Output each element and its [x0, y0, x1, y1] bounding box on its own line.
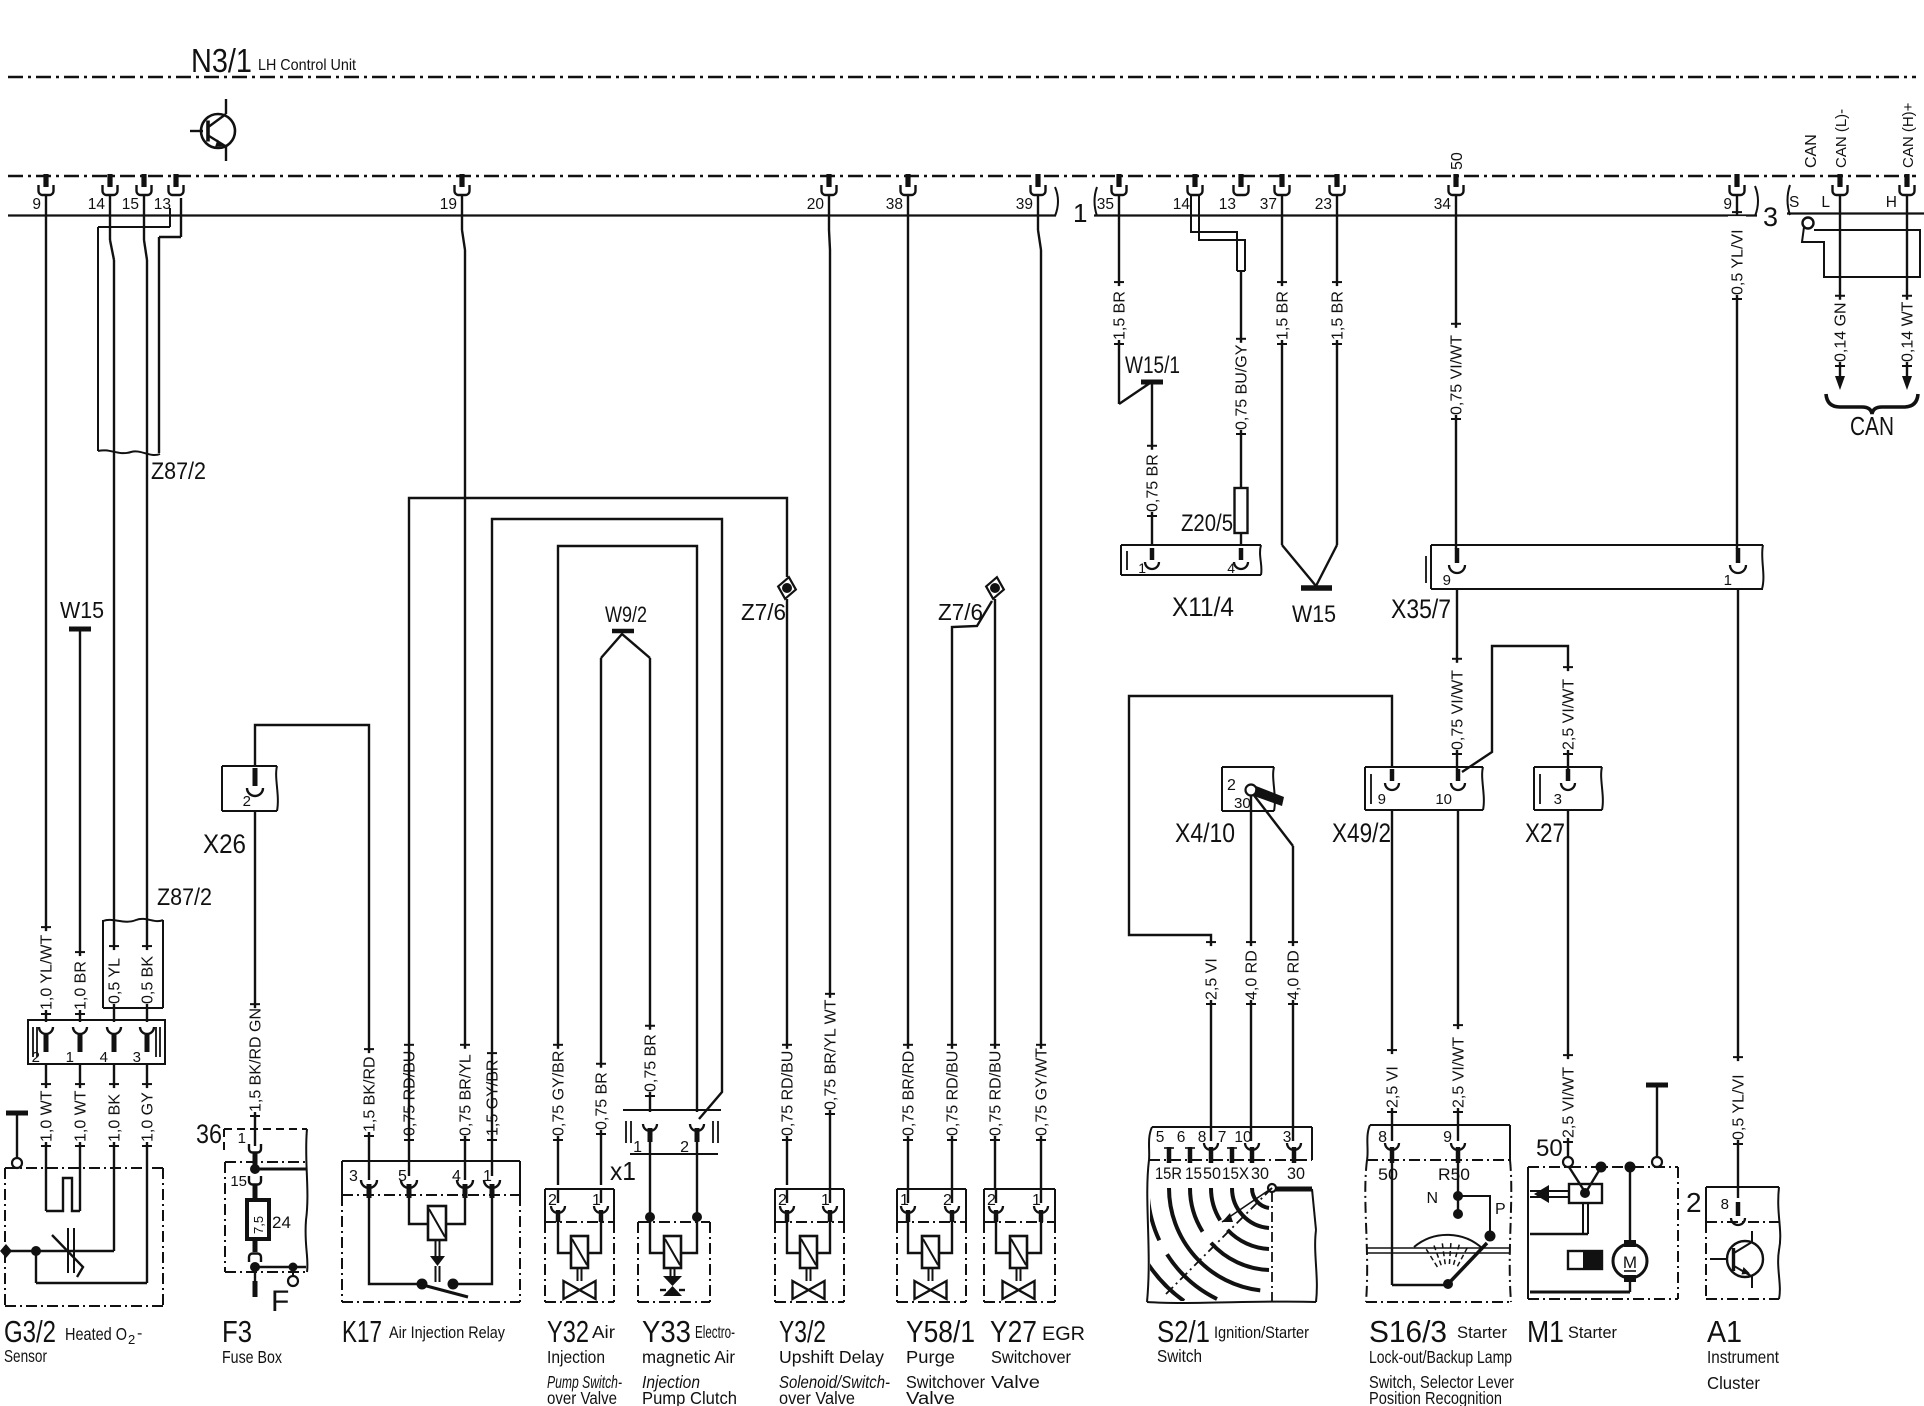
svg-text:1,5 BR: 1,5 BR — [1112, 291, 1129, 340]
starter lock-out switch S16/3 connector strip — [1367, 1125, 1370, 1160]
solder point Z7/6 first — [776, 576, 798, 601]
svg-text:0,14 GN: 0,14 GN — [1833, 302, 1850, 362]
svg-text:50: 50 — [1536, 1135, 1563, 1162]
CAN L wire 0,14 GN — [1839, 196, 1841, 378]
svg-text:CAN: CAN — [1803, 134, 1820, 168]
svg-text:4,0 RD: 4,0 RD — [1244, 950, 1261, 1000]
svg-text:Z20/5: Z20/5 — [1181, 510, 1233, 537]
S16/3 housing — [1365, 1160, 1367, 1302]
svg-text:W15: W15 — [60, 597, 104, 623]
svg-text:H: H — [1886, 194, 1897, 211]
svg-text:Heated O: Heated O — [65, 1324, 127, 1344]
N3/1 pin 20 — [826, 174, 831, 187]
ground W15 — [1301, 585, 1332, 591]
wire Z7/6 to Y27 pin 2 — [994, 599, 996, 1189]
svg-text:0,75 BR: 0,75 BR — [594, 1072, 611, 1130]
svg-text:X49/2: X49/2 — [1332, 818, 1391, 848]
connector x1 pin 3 — [140, 1027, 154, 1034]
wire X49/2 pin 10 to S16/3 terminal R50: 2,5 VI/WT — [1457, 810, 1459, 1141]
svg-text:9: 9 — [32, 196, 41, 213]
X49/2 pin 9 — [1390, 769, 1395, 781]
svg-text:A1: A1 — [1707, 1314, 1742, 1349]
svg-text:10: 10 — [1234, 1129, 1252, 1146]
wire pin 9 to O2 sensor connector pin 2 — [45, 194, 47, 1022]
shielded cable Z87/2 upper section — [98, 226, 170, 228]
svg-text:EGR: EGR — [1042, 1324, 1085, 1345]
wire pin 34: 0,75 VI/WT down to X35/7 — [1455, 194, 1457, 549]
svg-text:S16/3: S16/3 — [1369, 1314, 1447, 1349]
svg-text:K17: K17 — [342, 1314, 382, 1349]
svg-text:13: 13 — [1219, 196, 1236, 213]
N3/1 pin 37 — [1279, 174, 1284, 187]
Y32 valve body — [545, 1221, 614, 1223]
CAN shield loop at pin S — [1803, 218, 1814, 229]
N3/1 pin 23 — [1334, 174, 1339, 187]
heated O2 sensor G3/2 ground stud — [6, 1111, 28, 1116]
svg-text:10: 10 — [1435, 791, 1452, 808]
connector x1 of O2 sensor — [28, 1020, 165, 1064]
svg-text:X35/7: X35/7 — [1391, 594, 1451, 624]
M1 housing — [1528, 1166, 1678, 1168]
svg-text:LH Control Unit: LH Control Unit — [258, 57, 356, 74]
wire 1,5 GY/BR K17 pin 1 — [483, 1057, 501, 1136]
svg-text:2,5 VI: 2,5 VI — [1385, 1066, 1402, 1108]
svg-text:S: S — [1789, 194, 1799, 211]
wire pin 20 to Y3/2 pin 1 — [828, 194, 830, 230]
svg-text:over Valve: over Valve — [779, 1388, 855, 1406]
svg-text:x1: x1 — [610, 1156, 636, 1186]
svg-text:14: 14 — [88, 196, 106, 213]
svg-text:15: 15 — [230, 1173, 247, 1190]
X35/7 pin 9 — [1455, 548, 1460, 563]
svg-text:23: 23 — [1315, 196, 1332, 213]
CAN brace — [1826, 394, 1918, 414]
wire W9/2 to connector x1 pin 1: 0,75 BR — [649, 658, 651, 1112]
wire connector to sensor: 1,0 WT — [79, 1064, 81, 1211]
svg-text:CAN (L)-: CAN (L)- — [1833, 109, 1850, 168]
svg-text:W15: W15 — [1292, 601, 1336, 628]
X35/7 pin 1 — [1736, 548, 1741, 563]
svg-text:Sensor: Sensor — [4, 1346, 47, 1366]
wires x1 pins down to Y33 with junctions — [649, 1142, 651, 1222]
svg-text:0,75 BU/GY: 0,75 BU/GY — [1234, 344, 1251, 430]
svg-text:Purge: Purge — [906, 1347, 955, 1367]
wire connector to sensor: 1,0 BK — [113, 1064, 115, 1251]
svg-text:6: 6 — [1177, 1129, 1186, 1146]
svg-text:3: 3 — [1763, 202, 1778, 232]
control unit N3/1 dashed border top — [8, 76, 1916, 79]
svg-text:Position Recognition: Position Recognition — [1369, 1388, 1502, 1406]
svg-text:0,75 RD/BU: 0,75 RD/BU — [780, 1051, 797, 1136]
wire loop K17 pin 5 to Y3/2 pin 2 — [409, 498, 787, 1176]
air injection relay K17 connector box — [342, 1160, 520, 1162]
svg-text:1: 1 — [1724, 572, 1732, 589]
wire X4/10 4,0 RD to S2/1 — [1250, 795, 1252, 1141]
svg-text:13: 13 — [154, 196, 171, 213]
svg-text:2: 2 — [680, 1139, 689, 1156]
A1 transistor symbol — [1727, 1241, 1763, 1277]
solder point Z7/6 second — [984, 576, 1006, 601]
svg-text:1,5 BK/RD GN: 1,5 BK/RD GN — [248, 1008, 265, 1112]
connector X26 — [222, 765, 277, 767]
svg-text:15X: 15X — [1222, 1165, 1249, 1183]
svg-text:Y32: Y32 — [547, 1314, 589, 1349]
svg-text:34: 34 — [1434, 196, 1452, 213]
svg-text:Z87/2: Z87/2 — [157, 884, 212, 911]
svg-text:Lock-out/Backup Lamp: Lock-out/Backup Lamp — [1369, 1347, 1512, 1367]
svg-text:R50: R50 — [1438, 1166, 1470, 1184]
connector X49/2 — [1365, 766, 1483, 768]
K17 contact wiring pins 3 and 1 — [369, 1198, 417, 1284]
svg-text:Switchover: Switchover — [991, 1347, 1071, 1367]
svg-text:Starter: Starter — [1568, 1323, 1617, 1342]
svg-text:36: 36 — [196, 1119, 222, 1149]
wire 0,5 YL/VI bus pin 9 to X35/7 pin 1 — [1736, 194, 1738, 549]
svg-text:0,75 BR/YL WT: 0,75 BR/YL WT — [823, 999, 840, 1110]
wire X35/7 pin 1 to instrument cluster A1: 0,5 YL/VI — [1737, 589, 1739, 1198]
svg-text:0,5 BK: 0,5 BK — [140, 956, 157, 1004]
fuse element Z20/5 — [1235, 488, 1248, 533]
connector x1 pin 2 — [39, 1027, 53, 1034]
air injection pump switchover valve Y32 connector — [545, 1188, 614, 1190]
upshift delay solenoid valve Y3/2 connector — [775, 1188, 844, 1190]
M1 linkage — [1582, 1203, 1584, 1234]
svg-text:W9/2: W9/2 — [605, 602, 647, 627]
svg-text:50: 50 — [1449, 152, 1466, 170]
svg-text:1,0 GY: 1,0 GY — [140, 1092, 157, 1142]
svg-text:M1: M1 — [1527, 1314, 1564, 1349]
wire connector to sensor: 1,0 GY — [146, 1064, 148, 1283]
svg-text:-: - — [137, 1325, 142, 1342]
Y33 clutch symbol — [670, 1268, 672, 1276]
svg-text:N: N — [1426, 1190, 1438, 1207]
wire pin 13 jog to cable shield — [180, 198, 182, 237]
svg-text:Cluster: Cluster — [1707, 1373, 1760, 1393]
K17 relay coil — [428, 1206, 446, 1240]
svg-text:15R: 15R — [1155, 1165, 1182, 1183]
svg-text:2,5 VI: 2,5 VI — [1204, 958, 1221, 1000]
svg-text:1: 1 — [238, 1130, 246, 1147]
S16/3 selector fan — [1443, 1279, 1453, 1289]
svg-text:50: 50 — [1203, 1165, 1221, 1183]
svg-text:Z7/6: Z7/6 — [741, 599, 786, 625]
wire 0,75 RD/BU K17 pin 5 — [400, 1049, 418, 1136]
svg-text:Z7/6: Z7/6 — [938, 599, 983, 625]
connector X11/4 — [1121, 544, 1261, 546]
svg-text:2,5 VI/WT: 2,5 VI/WT — [1561, 679, 1578, 750]
svg-text:2: 2 — [1227, 777, 1236, 794]
svg-text:5: 5 — [1156, 1129, 1165, 1146]
svg-text:4,0 RD: 4,0 RD — [1286, 950, 1303, 1000]
S2/1 housing — [1147, 1160, 1149, 1302]
N3/1 pin 9 — [1734, 174, 1739, 187]
svg-text:1,5 BR: 1,5 BR — [1330, 291, 1347, 340]
N3/1 pin 14 — [107, 174, 112, 187]
svg-text:4: 4 — [1227, 560, 1235, 576]
wire W15/1 to X11/4 pin 1: 0,75 BR — [1151, 384, 1153, 546]
svg-text:7,5: 7,5 — [251, 1216, 266, 1234]
svg-text:1: 1 — [1073, 198, 1087, 228]
svg-text:1,5 BR: 1,5 BR — [1275, 291, 1292, 340]
heated O2 sensor G3/2 housing — [5, 1167, 163, 1169]
G3/2 heater element — [46, 1178, 80, 1211]
M1 engagement arrow — [1530, 1190, 1569, 1192]
svg-text:Fuse Box: Fuse Box — [222, 1347, 282, 1367]
svg-text:1: 1 — [66, 1049, 74, 1066]
EGR switchover valve Y27 connector — [984, 1188, 1055, 1190]
control unit N3/1 dashed border bottom — [8, 175, 1916, 178]
S16/3 internal wiring — [1391, 1163, 1393, 1285]
instrument cluster A1 housing — [1706, 1186, 1779, 1188]
shielded cable Z87/2 lower section — [103, 919, 163, 922]
X11/4 pin 4 — [1239, 548, 1244, 560]
CAN pin H — [1904, 174, 1909, 187]
wire X49/2 pin 10 to X27 pin 3 — [1462, 646, 1568, 772]
svg-text:0,75 BR/YL: 0,75 BR/YL — [458, 1054, 475, 1136]
svg-text:2: 2 — [243, 793, 251, 810]
X49/2 pin 10 — [1456, 769, 1461, 781]
wire W15 to sensor connector pin 1 — [79, 631, 81, 1022]
wire pin 39 to Y27 pin 1 — [1037, 194, 1039, 230]
svg-text:3: 3 — [133, 1049, 141, 1066]
svg-text:0,5 YL/VI: 0,5 YL/VI — [1730, 229, 1747, 295]
wire loop K17 pin 1 to connector x1 pin 2 — [492, 519, 722, 1176]
svg-text:4: 4 — [100, 1049, 108, 1066]
wire Z7/6 branch to Y58/1 pin 2 — [952, 601, 992, 1189]
svg-text:1: 1 — [1138, 560, 1146, 576]
wire pin 14 down through shield to connector pin 4 — [109, 194, 111, 240]
N3/1 pin 38 — [905, 174, 910, 187]
wire X27 pin 3 to starter M1 terminal 50: 2,5 VI/WT — [1567, 810, 1569, 1157]
svg-text:S2/1: S2/1 — [1157, 1314, 1210, 1349]
CAN pin L — [1837, 174, 1842, 187]
svg-text:magnetic Air: magnetic Air — [642, 1347, 735, 1367]
svg-text:0,75 GY/BR: 0,75 GY/BR — [551, 1051, 568, 1136]
S2/1 pins 15R 15 15X plugs — [1164, 1147, 1174, 1149]
svg-text:F3: F3 — [222, 1314, 252, 1349]
wire W9/2 to Y32 pin 1: 0,75 BR — [600, 658, 602, 1185]
svg-text:G3/2: G3/2 — [4, 1314, 56, 1349]
svg-text:3: 3 — [1554, 791, 1562, 808]
wire 0,75 VI/WT X35/7 pin 9 to X49/2 pin 10 — [1456, 589, 1458, 769]
svg-text:8: 8 — [1721, 1196, 1729, 1213]
wire 0,75 BR/YL from pin 19 — [461, 194, 463, 230]
K17 coil wiring — [409, 1198, 428, 1224]
svg-text:14: 14 — [1173, 196, 1191, 213]
svg-text:9: 9 — [1723, 196, 1732, 213]
svg-text:9: 9 — [1443, 572, 1451, 589]
svg-text:Y58/1: Y58/1 — [906, 1314, 975, 1349]
connector x1 pin 1 — [643, 1124, 657, 1131]
svg-text:Y27: Y27 — [990, 1314, 1037, 1349]
svg-text:Y33: Y33 — [642, 1314, 691, 1349]
svg-text:Upshift Delay: Upshift Delay — [779, 1347, 884, 1367]
svg-text:Air Injection Relay: Air Injection Relay — [389, 1323, 505, 1342]
svg-text:38: 38 — [886, 196, 903, 213]
svg-text:Injection: Injection — [547, 1347, 605, 1367]
N3/1 pin 34 — [1453, 174, 1458, 187]
svg-text:39: 39 — [1016, 196, 1033, 213]
svg-text:37: 37 — [1260, 196, 1277, 213]
wire pin 15 down through shield to connector pin 3 — [143, 194, 145, 240]
Y58/1 valve body — [897, 1221, 966, 1223]
svg-text:1: 1 — [633, 1139, 642, 1156]
N3/1 pin 19 — [459, 174, 464, 187]
svg-text:X26: X26 — [203, 829, 246, 859]
svg-text:0,75 RD/BU: 0,75 RD/BU — [945, 1051, 962, 1136]
connector x1 pin 4 — [107, 1027, 121, 1034]
wire 0,75 BU/GY to Z20/5 — [1240, 271, 1242, 488]
wire X26 up and over to relay K17 pin 3 — [255, 725, 369, 1180]
bus bar segment 2 (connector 3) — [1094, 214, 1757, 216]
X11/4 pin 1 — [1150, 548, 1155, 560]
connector x1 pin 2 — [690, 1124, 704, 1131]
svg-text:0,14 WT: 0,14 WT — [1900, 301, 1917, 362]
svg-text:Switch: Switch — [1157, 1346, 1202, 1366]
S2/1 rotary switch symbol — [1268, 1184, 1276, 1192]
svg-text:Valve: Valve — [906, 1388, 955, 1406]
G3/2 sensor cell wiring — [36, 1250, 114, 1252]
svg-text:30: 30 — [1251, 1165, 1269, 1183]
N3/1 pin 39 — [1035, 174, 1040, 187]
wire pin 38 to Y58/1 pin 1 — [907, 194, 909, 1189]
N3/1 pin 35 — [1116, 174, 1121, 187]
Y3/2 valve body — [775, 1221, 844, 1223]
svg-text:Ignition/Starter: Ignition/Starter — [1214, 1323, 1309, 1342]
svg-text:3: 3 — [349, 1168, 358, 1185]
K17 housing dash-dot — [342, 1194, 520, 1196]
svg-text:30: 30 — [1287, 1165, 1305, 1183]
electromagnetic air injection pump clutch Y33 — [638, 1221, 710, 1223]
wire pin 35: 1,5 BR to W15/1 — [1118, 194, 1120, 404]
ignition/starter switch S2/1 connector strip — [1149, 1127, 1152, 1160]
svg-text:2,5 VI/WT: 2,5 VI/WT — [1451, 1037, 1468, 1108]
M1 solenoid — [1596, 1162, 1607, 1173]
svg-text:1,0 YL/WT: 1,0 YL/WT — [39, 934, 56, 1010]
M1 ground — [1646, 1083, 1668, 1088]
svg-text:0,75 BR: 0,75 BR — [643, 1034, 660, 1092]
svg-text:0,5 YL/VI: 0,5 YL/VI — [1731, 1074, 1748, 1140]
fuse element 7,5A — [247, 1200, 269, 1239]
svg-text:F: F — [271, 1285, 289, 1318]
svg-text:Starter: Starter — [1457, 1323, 1507, 1342]
N3/1 pin 13 — [173, 174, 178, 187]
connector X27 — [1534, 766, 1602, 768]
svg-text:Electro-: Electro- — [695, 1322, 735, 1342]
svg-text:Pump Clutch: Pump Clutch — [642, 1388, 737, 1406]
wire X4/10 diagonal 4,0 RD to S2/1 — [1253, 794, 1293, 846]
svg-text:1,0 WT: 1,0 WT — [73, 1090, 90, 1142]
CAN H wire 0,14 WT — [1906, 196, 1908, 378]
S16/3 twin rails — [1367, 1247, 1510, 1249]
svg-text:2: 2 — [32, 1049, 40, 1066]
connector x1 above Y33 — [623, 1109, 721, 1111]
svg-text:0,75 VI/WT: 0,75 VI/WT — [1449, 335, 1466, 415]
svg-text:0,75 BR/RD: 0,75 BR/RD — [901, 1051, 918, 1136]
purge switchover valve Y58/1 connector — [897, 1188, 966, 1190]
N3/1 pin 9 — [43, 174, 48, 187]
svg-text:2: 2 — [1686, 1187, 1702, 1218]
svg-text:P: P — [1495, 1201, 1506, 1218]
svg-text:W15/1: W15/1 — [1125, 352, 1180, 379]
svg-text:X4/10: X4/10 — [1175, 818, 1235, 848]
ribbon wire pins 14/13 — [1191, 196, 1237, 271]
svg-text:0,75 VI/WT: 0,75 VI/WT — [1450, 670, 1467, 750]
svg-text:X11/4: X11/4 — [1172, 592, 1234, 622]
svg-text:L: L — [1821, 194, 1830, 211]
svg-text:2: 2 — [128, 1332, 135, 1347]
bus bar segment 1 (connector 1) — [8, 214, 1056, 216]
M1 motor — [1629, 1167, 1631, 1240]
svg-text:Z87/2: Z87/2 — [151, 458, 206, 485]
svg-text:15: 15 — [1185, 1165, 1202, 1183]
svg-text:1,5 BK/RD: 1,5 BK/RD — [362, 1056, 379, 1132]
connector X4/10 — [1222, 766, 1274, 768]
svg-text:1,0 BK: 1,0 BK — [107, 1094, 124, 1142]
N3/1 pin 14 — [1192, 174, 1197, 187]
svg-text:N3/1: N3/1 — [191, 42, 252, 79]
svg-text:2: 2 — [548, 1192, 557, 1209]
wire connector to sensor: 1,0 WT — [45, 1064, 47, 1211]
svg-text:35: 35 — [1097, 196, 1114, 213]
svg-text:50: 50 — [1378, 1166, 1398, 1184]
svg-text:X27: X27 — [1525, 818, 1565, 848]
svg-text:Valve: Valve — [991, 1372, 1040, 1392]
svg-text:0,75 RD/BU: 0,75 RD/BU — [988, 1051, 1005, 1136]
S2/1 pins 50 30 30 sockets — [1204, 1143, 1218, 1150]
svg-text:20: 20 — [807, 196, 825, 213]
svg-text:1,0 BR: 1,0 BR — [73, 961, 90, 1010]
svg-text:CAN: CAN — [1850, 411, 1894, 441]
svg-text:over Valve: over Valve — [547, 1388, 617, 1406]
svg-text:1,0 WT: 1,0 WT — [39, 1090, 56, 1142]
svg-text:0,75 GY/WT: 0,75 GY/WT — [1034, 1048, 1051, 1136]
N3/1 pin 15 — [141, 174, 146, 187]
connector X35/7 — [1431, 544, 1763, 546]
svg-text:19: 19 — [440, 196, 457, 213]
wire X49/2 pin 9 loop to S2/1 terminal 50 — [1129, 696, 1392, 1141]
wires pins 37 and 23: 1,5 BR to ground W15 — [1281, 194, 1283, 545]
svg-text:24: 24 — [272, 1213, 291, 1232]
svg-text:9: 9 — [1378, 791, 1386, 808]
wire loop Y32 pin 2 to connector x1 pin 2 — [558, 546, 697, 1185]
bus bar segment 3 (CAN connector strip) — [1787, 212, 1924, 214]
M1 pinion — [1568, 1251, 1602, 1269]
svg-text:2,5 VI/WT: 2,5 VI/WT — [1561, 1067, 1578, 1138]
svg-text:Y3/2: Y3/2 — [779, 1314, 826, 1349]
transistor symbol inside N3/1 — [201, 114, 235, 148]
svg-text:CAN (H)+: CAN (H)+ — [1900, 102, 1917, 168]
connector x1 pin 1 — [73, 1027, 87, 1034]
svg-text:30: 30 — [1234, 795, 1251, 812]
svg-text:0,5 YL: 0,5 YL — [107, 958, 124, 1004]
K17 armature and contact — [435, 1240, 437, 1256]
svg-text:M: M — [1623, 1253, 1637, 1272]
Y27 valve body — [984, 1221, 1055, 1223]
wire X26 down to fuse F3: 1,5 BK/RD GN — [254, 811, 256, 1146]
N3/1 pin 13 — [1238, 174, 1243, 187]
wire X49/2 pin 9 to S16/3 terminal 50: 2,5 VI — [1391, 810, 1393, 1141]
svg-text:Air: Air — [592, 1322, 615, 1342]
svg-text:15: 15 — [122, 196, 139, 213]
svg-text:0,75 BR: 0,75 BR — [1145, 454, 1162, 512]
svg-text:Instrument: Instrument — [1707, 1347, 1779, 1367]
